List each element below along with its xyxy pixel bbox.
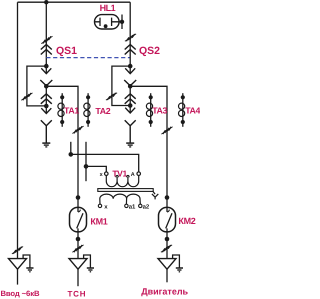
node: QS2 lower terminal	[128, 103, 133, 108]
terminal A of TV1	[137, 172, 141, 176]
top bus wire	[18, 1, 131, 3]
core earth arrow	[152, 191, 158, 199]
node: KM1 bottom	[76, 237, 81, 242]
wire: QS2 node to motor feeder	[130, 86, 167, 197]
svg-text:TA4: TA4	[185, 106, 200, 116]
fixed socket contact QS2 cubicle	[124, 80, 136, 86]
wire: QS2 bypass left	[112, 66, 130, 105]
terminal a2 of secondary	[139, 204, 142, 207]
svg-text:HL1: HL1	[100, 3, 116, 13]
terminal a1 of secondary	[125, 204, 128, 207]
plug-in chevrons lower QS1	[41, 94, 52, 104]
ground assembly motor	[158, 255, 183, 272]
withdrawable mark TSN ground	[72, 245, 83, 252]
withdrawable mark on QS1	[41, 36, 52, 43]
terminal x of secondary	[98, 204, 101, 207]
wire: KM1 to ground	[77, 232, 79, 259]
node: QS2 cubicle bus	[128, 84, 133, 89]
fixed socket + tail QS2 bottom	[125, 120, 136, 142]
ground assembly input feeder	[9, 255, 34, 272]
svg-text:TA3: TA3	[152, 106, 167, 116]
svg-text:Ввод ~6кВ: Ввод ~6кВ	[1, 289, 40, 298]
withdrawable mark on QS1 bypass	[21, 93, 32, 100]
wire: QS1 bypass left	[27, 66, 46, 106]
node: QS2 upper terminal	[128, 64, 133, 69]
svg-text:a1: a1	[129, 203, 136, 210]
ground assembly TSN	[69, 255, 94, 272]
terminal X of TV1	[105, 172, 109, 176]
node: KM2 top	[165, 195, 170, 200]
node: KM1 top	[76, 195, 81, 200]
contactor KM2	[159, 198, 176, 232]
mechanical link (dashed) QS1-QS2	[46, 57, 130, 59]
withdrawable mark motor ground	[161, 245, 172, 252]
svg-text:TA2: TA2	[95, 106, 110, 116]
node: QS1 tap on top bus	[44, 0, 48, 4]
wire: TV1 supply bus	[71, 154, 139, 172]
wire: QS1 node to TSN feeder	[46, 86, 78, 197]
moving plug contact at QS1 bottom	[41, 106, 51, 114]
current transformer TA2	[84, 93, 90, 127]
node: QS1 upper terminal	[44, 64, 49, 69]
fixed socket + tail QS1 bottom	[41, 120, 52, 142]
left rail wire (Ввод feeder)	[17, 2, 19, 258]
wire: QS2 column mid	[129, 86, 131, 105]
disconnector QS1 (plug-in chevrons)	[41, 45, 52, 55]
node: QS1 cubicle bus	[44, 84, 49, 89]
wire: motor ground tail	[166, 269, 168, 282]
wire: TV1 x lead	[86, 166, 106, 172]
wire: QS2 column upper	[129, 2, 131, 66]
svg-text:А: А	[131, 172, 135, 178]
earth at QS1 spare contact	[42, 143, 50, 147]
wire: TV1 stub left	[70, 142, 72, 155]
moving plug contact below QS1	[41, 66, 51, 74]
current transformer TA4	[179, 93, 185, 127]
svg-text:QS2: QS2	[139, 45, 160, 57]
wire: QS1 column upper	[45, 2, 47, 66]
svg-text:Двигатель: Двигатель	[141, 287, 188, 297]
wire: HL1 to tap stub	[119, 15, 122, 30]
wire: QS1 column mid	[45, 86, 47, 106]
node: TV1 bus tap	[69, 152, 74, 157]
withdrawable mark on motor feeder	[161, 127, 172, 134]
plug-in chevrons lower QS2	[125, 94, 136, 104]
svg-text:TV1: TV1	[112, 168, 127, 178]
transformer TV1 primary winding	[106, 175, 138, 186]
wire: TSN ground tail	[77, 269, 79, 286]
withdrawable mark on QS2 bypass	[106, 93, 117, 100]
transformer TV1 core	[98, 189, 153, 192]
node: HL1 tap	[120, 20, 124, 24]
earth at QS2 spare contact	[126, 143, 134, 147]
svg-text:КМ2: КМ2	[178, 216, 195, 226]
disconnector QS2 (plug-in chevrons)	[125, 45, 136, 55]
wire: KM2 to ground	[166, 232, 168, 259]
svg-text:TA1: TA1	[64, 106, 79, 116]
withdrawable mark input feeder	[12, 247, 23, 254]
svg-text:КМ1: КМ1	[90, 216, 107, 226]
node: QS1 lower terminal	[44, 104, 49, 109]
lamp HL1	[95, 15, 120, 29]
wire: TV1 stub right	[85, 142, 87, 181]
svg-text:ТСН: ТСН	[68, 289, 87, 298]
fixed socket contact QS1 cubicle	[40, 80, 52, 86]
withdrawable mark on TSN feeder	[72, 126, 83, 133]
svg-text:QS1: QS1	[56, 45, 77, 57]
current transformer TA3	[146, 93, 152, 127]
moving plug contact below QS2	[125, 66, 135, 74]
wire: input ground tail	[17, 269, 19, 284]
moving plug contact at QS2 bottom	[125, 106, 135, 114]
node: TV1 x-lead tap	[84, 164, 89, 169]
current transformer TA1	[58, 93, 64, 127]
withdrawable mark on QS2	[125, 34, 136, 41]
node: KM2 bottom	[165, 237, 170, 242]
svg-text:a2: a2	[143, 203, 150, 210]
contactor KM1	[70, 198, 87, 232]
transformer TV1 secondary winding	[100, 194, 141, 204]
